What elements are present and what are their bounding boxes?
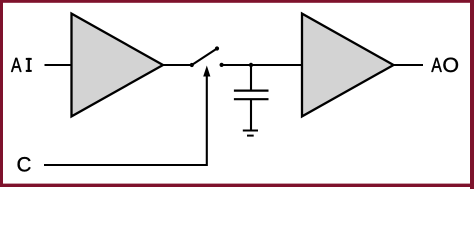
op-amp buffer 1: [72, 14, 164, 117]
switch right contact: [220, 63, 224, 67]
wire switch to buffer 2: [222, 64, 302, 66]
label AI: [11, 58, 32, 72]
wire buffer2 output: [394, 64, 424, 66]
label AO: [431, 58, 458, 72]
wire AI input: [45, 64, 73, 66]
wire junction to capacitor: [250, 65, 252, 91]
switch left contact: [190, 63, 194, 67]
wire capacitor to ground: [250, 99, 252, 130]
switch blade end dot: [215, 46, 219, 50]
switch blade: [192, 49, 217, 66]
switch S1: [190, 46, 224, 67]
ground: [243, 131, 258, 136]
node junction dot: [249, 63, 253, 67]
capacitor C1: [234, 91, 269, 100]
control arrow: [203, 66, 210, 165]
label C: [18, 157, 31, 171]
wire C control: [44, 164, 207, 165]
border frame: [0, 0, 474, 189]
wire buffer1 output to switch: [163, 64, 191, 66]
op-amp buffer 2: [302, 14, 394, 117]
